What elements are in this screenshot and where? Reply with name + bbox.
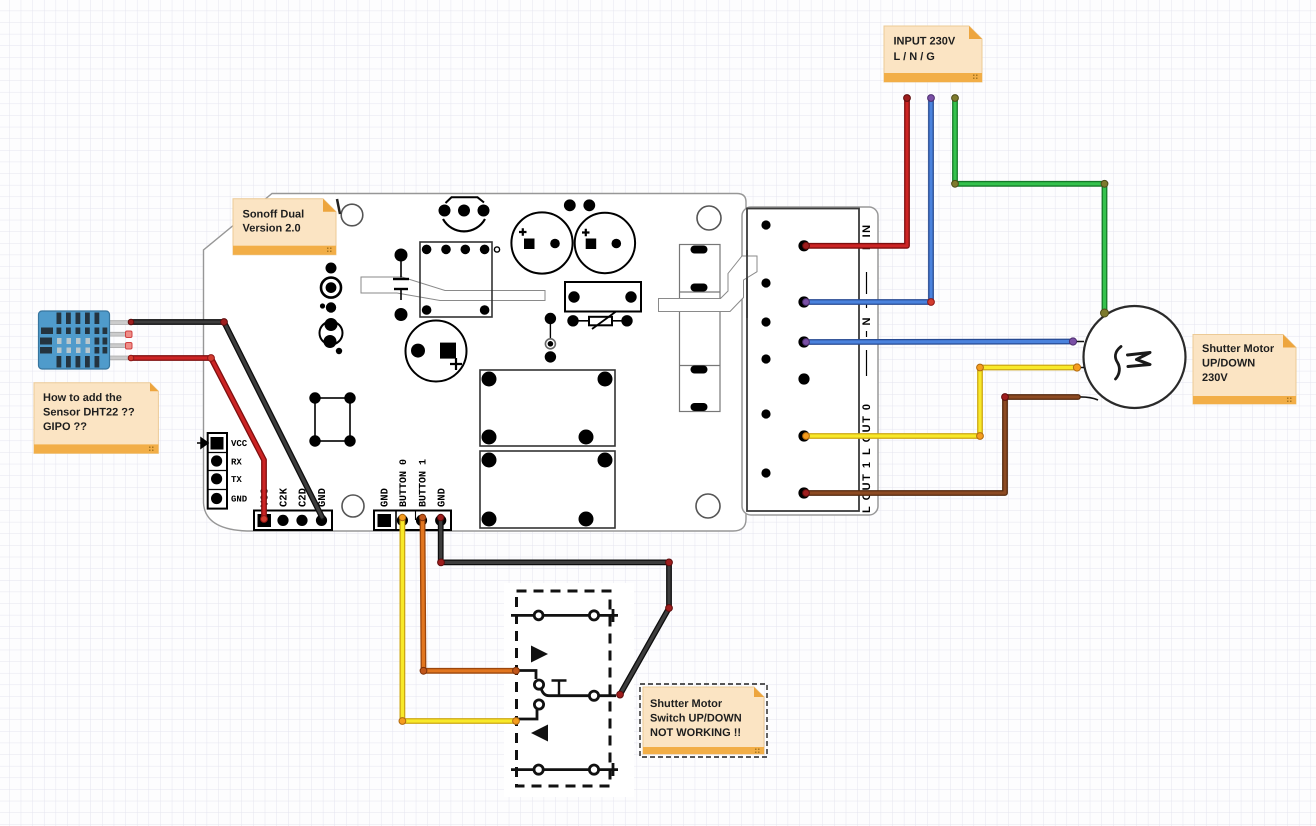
- svg-text:Sensor DHT22 ??: Sensor DHT22 ??: [43, 407, 135, 419]
- svg-text:How to add the: How to add the: [43, 392, 122, 404]
- svg-text:VCC: VCC: [231, 439, 248, 449]
- svg-text:Shutter Motor: Shutter Motor: [1202, 343, 1275, 355]
- svg-text:BUTTON 0: BUTTON 0: [399, 459, 410, 507]
- svg-text:Version 2.0: Version 2.0: [243, 223, 301, 235]
- svg-text:C2K: C2K: [279, 487, 291, 507]
- svg-text:Shutter Motor: Shutter Motor: [650, 698, 723, 710]
- svg-text:L / N / G: L / N / G: [894, 51, 935, 63]
- svg-text:L OUT 0: L OUT 0: [861, 403, 873, 455]
- svg-text:GND: GND: [380, 488, 392, 507]
- svg-text:GIPO ??: GIPO ??: [43, 421, 87, 433]
- svg-text:GND: GND: [231, 495, 248, 505]
- svg-text:GND: GND: [437, 488, 449, 507]
- svg-text:NOT WORKING !!: NOT WORKING !!: [650, 727, 741, 739]
- svg-text:N: N: [861, 316, 873, 325]
- svg-text:INPUT 230V: INPUT 230V: [894, 36, 956, 48]
- svg-text:TX: TX: [231, 475, 242, 485]
- svg-text:UP/DOWN: UP/DOWN: [1202, 358, 1255, 370]
- svg-text:Switch UP/DOWN: Switch UP/DOWN: [650, 713, 742, 725]
- svg-text:L OUT 1: L OUT 1: [861, 461, 873, 513]
- svg-text:RX: RX: [231, 458, 242, 468]
- svg-text:GND: GND: [317, 488, 329, 507]
- svg-text:Sonoff Dual: Sonoff Dual: [243, 209, 305, 221]
- svg-text:BUTTON 1: BUTTON 1: [418, 459, 429, 507]
- svg-text:230V: 230V: [1202, 372, 1228, 384]
